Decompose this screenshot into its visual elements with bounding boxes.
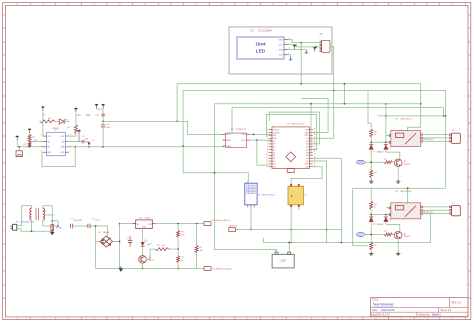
wire pin3 row [17,146,43,148]
power flag above R2 [28,129,31,131]
resistor R8 [195,246,198,253]
wire R1 to D1 [55,120,59,122]
sensor U5 DHT11 [245,181,275,207]
wire U3 out to MCU [250,133,272,135]
svg-text:2018-10-08: 2018-10-08 [381,308,395,312]
resistor R coil relay1 [370,129,373,137]
svg-text:H: H [3,203,5,206]
svg-text:D10: D10 [273,164,276,166]
wire resistor to diode row relay1 [370,137,372,145]
wire left loop vertical [214,104,276,252]
svg-text:SRD-05VDC: SRD-05VDC [400,191,412,193]
wire battery rail left stub [262,238,264,243]
junction rail right [445,115,447,117]
title block [371,298,469,317]
svg-text:A1: A1 [306,157,308,160]
wire DHT gnd down [250,207,252,229]
svg-text:2N2222: 2N2222 [404,164,411,166]
wire module right pin stub [298,207,300,210]
transistor Q relay1 [394,159,402,167]
junction module batt rail [290,242,292,244]
wire R8 leads [196,224,198,246]
svg-text:A3: A3 [306,151,308,154]
wire flag to R4 [75,113,77,125]
svg-text:4.7k: 4.7k [181,234,185,236]
svg-text:470: 470 [162,245,165,247]
capacitor C3 [101,113,104,115]
junction on SDA wire [300,42,302,44]
relay relay1 [389,119,434,147]
wire secondary bottom [43,220,58,226]
wire bridge left to minus rail [96,226,100,242]
svg-text:D: D [3,95,5,98]
wire MCU branch from feed line [311,104,313,156]
svg-text:11: 11 [266,157,268,159]
svg-text:SCL: SCL [61,152,65,154]
power flag mushroom left [16,136,19,138]
wire U2 pin2R to cap C2 [65,141,81,143]
svg-text:1: 1 [267,128,268,130]
capacitor CX2 [87,224,89,229]
svg-text:F? 2A: F? 2A [56,227,62,230]
wire MCU right n3 [269,112,319,144]
svg-text:SRD-05VDC: SRD-05VDC [400,119,412,121]
wire collector row relay1 [386,152,400,159]
svg-text:Vout: Vout [86,114,91,117]
svg-text:D9: D9 [273,161,275,163]
wire collector row relay2 [386,224,400,231]
LED D2 [87,142,90,145]
wire battery rail to relay2 [421,214,431,243]
power flag VCC (header) [313,47,316,49]
diode D flyback relay2 [369,216,373,218]
wire resistor to diode row relay2 [370,209,372,217]
wire U2 pin4 loop [42,147,75,167]
svg-text:EasyEDA v5.9.10: EasyEDA v5.9.10 [371,314,390,317]
svg-text:VCC: VCC [47,136,52,138]
svg-text:22: 22 [314,146,316,148]
svg-text:IIC LCD1604: IIC LCD1604 [258,31,272,33]
junction mid rail [326,229,328,231]
svg-text:16: 16 [314,163,316,165]
wire battery rail [263,242,430,244]
resistor R6 divider top [177,230,180,237]
wire D2 to SDA row [88,145,90,148]
svg-text:5: 5 [267,140,268,142]
svg-text:G: G [468,176,470,179]
wire bus H1 [177,83,421,85]
ground flag pulldown relay2 [370,251,372,253]
svg-text:28: 28 [314,128,316,130]
resistor R5 base [155,248,169,251]
relay relay2 [389,191,434,219]
svg-text:D6: D6 [273,152,275,154]
wire MCU right drop to mid rail [313,161,327,243]
wire LCD pin4 stub [288,55,291,57]
wire Q3 emitter [142,263,144,268]
svg-text:12: 12 [266,160,268,162]
svg-text:1k: 1k [374,134,376,136]
wire U3 vcc to MCU [250,139,272,141]
svg-text:REV: 1.0: REV: 1.0 [452,302,462,305]
wire Q3 base [146,249,155,259]
wire plug bottom prong [17,229,52,232]
wire pulldown to ground relay2 [370,250,372,251]
svg-text:GND: GND [273,138,278,140]
power flag cap stack right [102,104,105,106]
junction plus rail [119,241,121,243]
buzzer LS1 [16,144,28,157]
diode D1 [59,119,64,124]
wire pulldown to ground relay1 [370,178,372,179]
svg-text:D4: D4 [273,147,275,149]
svg-text:26: 26 [314,134,316,136]
wire diode2 bottom relay1 [385,149,387,152]
resistor R1 [40,120,55,123]
net label IN2? [356,233,364,237]
resistor R coil relay2 [370,201,373,209]
fuse F1 [51,224,62,230]
wire regulator gnd column [142,229,144,242]
diode D led relay2 [384,216,388,218]
junction buzzer [18,146,20,148]
svg-text:A4: A4 [306,148,308,151]
svg-text:DC-GND Max 0.5A 1x2: DC-GND Max 0.5A 1x2 [212,268,232,271]
svg-text:3: 3 [267,134,268,136]
svg-text:TX1/D1: TX1/D1 [273,129,279,131]
junction coil feed top [385,103,387,105]
junction loop to SDA row [74,146,76,148]
svg-text:1: 1 [41,135,42,137]
svg-text:DHT11 sensor: DHT11 sensor [262,195,275,197]
svg-text:GND: GND [47,152,52,154]
junction DHT gnd [250,229,252,231]
wire net label to base relay2 [365,234,385,236]
wire battery right pin [288,243,290,253]
svg-text:GND: GND [304,132,309,134]
wire coil pin top relay1 [386,135,391,137]
connector P1 AC outlet [10,221,34,231]
wire flag to R1 [42,111,44,121]
svg-text:A7: A7 [306,140,308,143]
svg-text:D11: D11 [273,167,276,169]
ground flag pulldown relay1 [370,179,372,181]
svg-text:New Schematic: New Schematic [373,302,394,306]
resistor R3 [28,142,31,147]
wire node A row to C4 [102,121,104,125]
svg-text:1k: 1k [374,207,376,209]
junction relay feed [344,83,346,85]
svg-text:D8: D8 [273,158,275,160]
junction coil feed rail [385,115,387,117]
svg-text:3V3: 3V3 [305,167,308,169]
wire regulator input [120,223,136,225]
svg-text:IN-: IN- [47,147,50,149]
svg-text:D: D [469,95,471,98]
svg-text:RELAY-JQC: RELAY-JQC [422,138,433,141]
junction fuse node [51,220,53,222]
svg-text:C: C [3,68,5,71]
junction feed-MCU branch [310,103,312,105]
connector A1 (I2C header) [320,33,331,53]
svg-text:G: G [3,176,5,179]
svg-text:470u: 470u [106,127,110,129]
wire base relay1 [393,161,395,163]
svg-text:A6: A6 [306,143,308,146]
wire caps to bridge top [90,226,107,236]
wire H2 right drop to relays [445,91,447,188]
power flag above C2 [77,130,80,132]
wire secondary top [43,206,52,221]
wire DHT branch [214,173,248,181]
wire emitter relay2 [397,239,399,251]
svg-text:2N2222: 2N2222 [404,236,411,238]
svg-text:12V: 12V [280,259,285,263]
bridge rectifier D3 [99,232,113,247]
wire buzzer to pin3 row [18,147,20,151]
op-amp U2 (dual comparator) [41,128,70,156]
capacitor CX1 [70,224,72,229]
transistor Q3 [139,256,147,264]
junction diode top relay2 [370,214,372,216]
junction R7 bottom [177,268,179,270]
wire base relay2 [393,234,395,236]
wire emitter relay1 [397,167,399,179]
svg-text:TIP41: TIP41 [149,260,154,262]
junction cap column node A row [102,121,104,123]
wire net SDA long row [65,146,224,148]
svg-text:SCL: SCL [226,134,230,136]
junction relay2 top [407,187,409,189]
wire R7 leads [177,249,179,256]
svg-text:1N4007: 1N4007 [377,224,384,226]
resistor R pulldown relay2 [370,242,373,250]
LCD module U1 16x4 LED [237,30,289,60]
junction battery rail signal [341,242,343,244]
wire pin2 row [30,141,43,143]
wire bus H3 small-IC vcc [232,108,444,134]
wire coil pin top relay2 [386,207,391,209]
diode D flyback relay1 [369,144,373,146]
wire C3 to node A row [102,116,104,122]
junction D2 [88,146,90,148]
wire LED to Q3 [142,246,144,256]
wire LCD pin3 stub [288,49,307,51]
junction SDA-cap column [102,146,104,148]
wire D1 out [64,120,69,122]
power flag left R1 [41,106,44,108]
wire MCU right to crystal [291,167,322,187]
junction R2 node [29,141,31,143]
svg-text:▲: ▲ [290,194,293,198]
svg-text:A0: A0 [306,160,308,163]
svg-text:20: 20 [314,151,316,153]
junction R3 bottom [29,146,31,148]
junction caps in [57,225,59,227]
wire MCU right relay2 signal [313,158,342,242]
svg-text:7: 7 [267,146,268,148]
wire R5 to divider [169,248,178,250]
junction H3 rail1 [443,115,445,117]
svg-text:GND: GND [279,39,284,41]
svg-text:C: C [469,68,471,71]
wire net label to base relay1 [365,161,385,163]
wire bridge out plus [113,241,120,243]
capacitor C5 bulk [127,236,133,246]
wire relay feed branch [343,84,345,104]
wire R4 to U2 out [65,134,76,137]
wire mid rail [236,229,342,231]
wire bus H2 [183,90,446,92]
wire H2 left drop to node B [182,91,184,147]
junction U3 vcc branch [256,139,258,141]
wire R2 to pin2 row [29,140,31,142]
svg-text:DC+5V Max 0.5A 1x2: DC+5V Max 0.5A 1x2 [212,219,230,222]
svg-text:LED?: LED? [147,244,153,246]
junction pulldown relay1 [370,161,372,163]
resistor R4 [74,125,77,134]
svg-text:19: 19 [314,154,316,156]
junction on SCL wire [315,46,317,48]
transformer T1 [30,208,55,221]
wire diode row top relay1 [371,141,391,143]
wire net SDA vertical from display [300,43,302,84]
wire LCD pin2 to header [288,45,322,47]
wire rail to coil resistor relay2 [370,188,372,201]
wire D1 column down relay1 [370,149,372,170]
svg-text:RELAY-JQC: RELAY-JQC [422,210,433,213]
net label IN1? [356,160,364,164]
junction bridge ac [95,225,97,227]
svg-text:A2: A2 [306,154,308,157]
capacitor C2 [81,140,83,144]
ground flag emitter relay2 [397,251,399,253]
svg-text:D2: D2 [273,141,275,143]
junction H2 drop [333,90,335,92]
wire C4 down to SDA row [102,127,104,147]
wire between caps [73,225,88,227]
svg-text:1N4007: 1N4007 [377,152,384,154]
wire bridge left drop [95,242,97,269]
svg-text:H: H [469,203,471,206]
wire regulator out rail [155,223,204,225]
net flag GND out [204,267,232,271]
junction feed from H1 [344,103,346,105]
connector J? [450,130,461,143]
resistor R base relay1 [384,161,392,164]
svg-text:10: 10 [266,154,268,156]
svg-text:D7: D7 [273,155,275,157]
resistor R7 divider bottom [177,256,180,263]
junction divider [177,248,179,250]
svg-text:Transformer: Transformer [45,213,56,216]
svg-text:6: 6 [267,143,268,145]
junction H1-SDA [300,83,302,85]
wire diode row top relay2 [371,214,391,216]
junction battery pin [288,242,290,244]
wire R6 leads [177,224,179,231]
svg-text:RX0/D0: RX0/D0 [273,132,280,134]
junction Q3 emitter [142,268,144,270]
svg-text:LED: LED [256,48,266,53]
svg-text:10k: 10k [200,250,203,252]
svg-text:D5: D5 [273,149,275,151]
wire H1 left drop to node A [176,84,178,122]
svg-text:4: 4 [267,137,268,139]
wire flag to C3 [102,109,104,114]
ground arrow bottom rail [119,269,123,272]
svg-text:IN2?: IN2? [358,234,364,237]
svg-text:Arduino nano: Arduino nano [292,123,305,126]
junction primary bottom [31,230,33,232]
svg-text:14: 14 [266,165,268,167]
wire C2 to LED D2 [85,141,90,143]
junction node B [182,145,184,147]
junction DHT branch [214,172,216,174]
MCU U4 Arduino Nano [266,123,315,173]
svg-text:5: 5 [70,151,71,153]
svg-text:Drawn By:: Drawn By: [419,314,430,317]
junction out rail R6 [177,223,179,225]
wire plus rail vertical [119,224,121,269]
power flag cap stack left [95,104,98,106]
net flag +5V [204,219,230,225]
svg-text:104: 104 [85,138,88,140]
wire U3 branch down to MCU D11 [257,140,269,165]
wire primary top [31,206,33,208]
connector J? [450,203,461,216]
svg-text:PCF8574T: PCF8574T [236,129,246,131]
ground arrow fuse [50,232,54,235]
wire relay contacts to connector relay2 [422,206,449,208]
svg-text:GND 12V: GND 12V [229,226,238,228]
wire header right drop [330,47,334,91]
wire LCD pin1 to header [288,39,322,42]
wire D1 column down relay2 [370,222,372,243]
svg-text:8: 8 [267,148,268,150]
wire plug top prong [17,206,32,226]
wire fuse leads [51,221,53,225]
wire diode2 bottom relay2 [385,222,387,225]
transistor Q relay2 [394,231,402,239]
LED D4 [141,239,153,246]
wire node B drop continues [183,147,214,173]
junction node A [176,121,178,123]
resistor R pulldown relay1 [370,170,373,178]
blue flag pin3 [305,50,307,52]
diode D led relay1 [384,144,388,146]
wire fuse node to caps [52,220,58,222]
svg-text:KBL406: KBL406 [103,232,110,234]
svg-text:A5: A5 [306,146,308,149]
regulator U6 7805 [133,218,156,229]
battery BT1 12V [272,249,294,268]
svg-text:L7805: L7805 [144,218,150,220]
wire MCU left loop [214,103,420,105]
junction out rail R8 [196,223,198,225]
resistor R2 [28,134,31,141]
svg-text:VCC: VCC [242,140,247,142]
svg-text:Date:: Date: [372,309,378,312]
svg-text:16x4: 16x4 [255,42,266,47]
wire flag stem to pin3 row [16,141,18,147]
svg-text:LM358: LM358 [52,128,59,130]
wire relay rail relay1 [378,115,446,117]
svg-text:IN1?: IN1? [358,161,364,164]
module B1 (yellow) [288,184,308,208]
wire relay rail relay2 [353,187,446,189]
capacitor C4 electrolytic [101,124,105,126]
